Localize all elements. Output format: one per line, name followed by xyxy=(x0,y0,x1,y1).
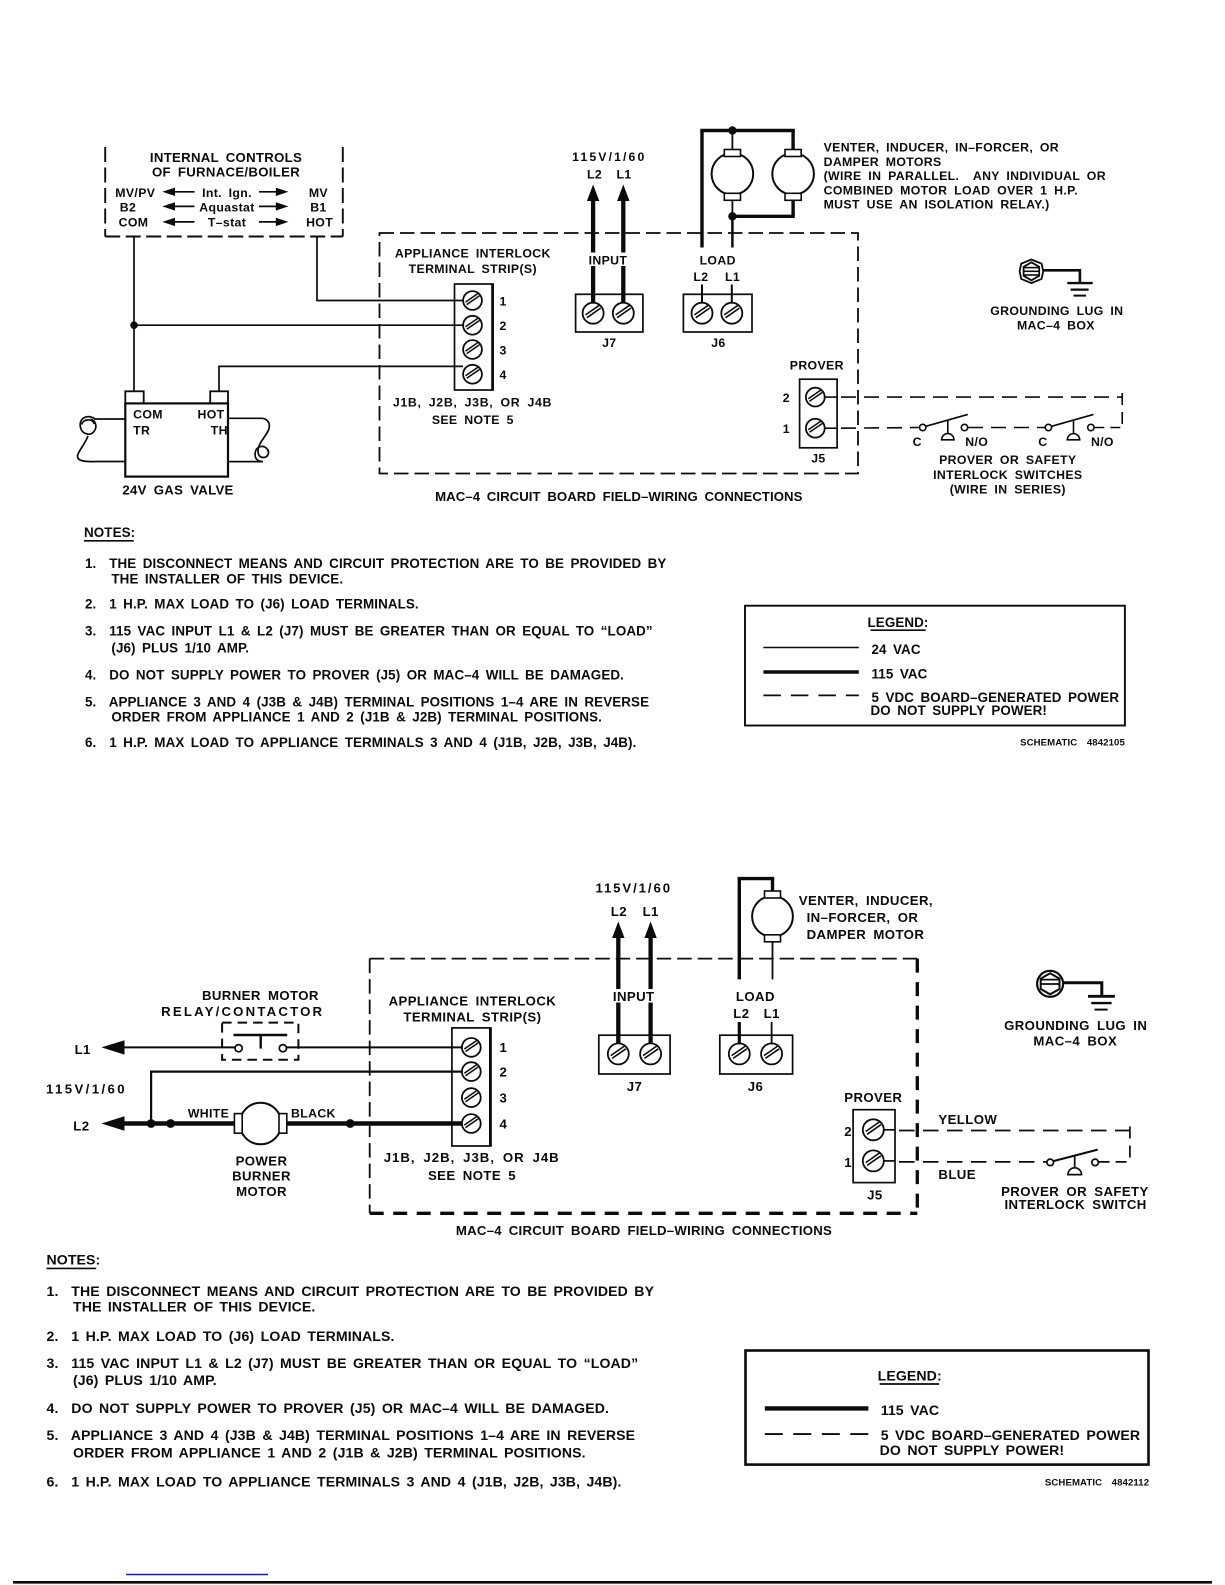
svg-text:VENTER, INDUCER,: VENTER, INDUCER, xyxy=(799,893,933,908)
label: grounding lug in MAC-4 box (diagram 2) xyxy=(1004,1018,1147,1049)
earth ground symbol (diagram 2) xyxy=(1088,996,1115,1009)
svg-text:HOT: HOT xyxy=(306,216,333,230)
svg-text:SEE NOTE 5: SEE NOTE 5 xyxy=(428,1168,516,1183)
svg-text:(J6) PLUS 1/10 AMP.: (J6) PLUS 1/10 AMP. xyxy=(111,641,249,656)
svg-text:INTERLOCK SWITCHES: INTERLOCK SWITCHES xyxy=(933,468,1082,482)
dashed box: MAC-4 circuit board field-wiring connections (diagram 1) xyxy=(380,233,859,474)
wire: J5-1 dashed to switch 1 C (5VDC) xyxy=(824,427,918,430)
LEGEND box (diagram 2) xyxy=(746,1351,1149,1465)
svg-text:OF FURNACE/BOILER: OF FURNACE/BOILER xyxy=(152,164,300,179)
svg-text:MAC–4 CIRCUIT BOARD FIELD–WIRI: MAC–4 CIRCUIT BOARD FIELD–WIRING CONNECT… xyxy=(435,489,802,504)
screw J5-1 (diagram 2) xyxy=(863,1150,884,1171)
svg-text:L1: L1 xyxy=(616,168,631,182)
svg-text:115V/1/60: 115V/1/60 xyxy=(595,881,672,896)
svg-text:C: C xyxy=(913,435,922,449)
connector J7 (diagram 2) xyxy=(599,1035,670,1094)
screw J7-L1 (diagram 2) xyxy=(640,1043,661,1064)
svg-text:2: 2 xyxy=(783,391,790,405)
svg-text:115 VAC: 115 VAC xyxy=(881,1402,939,1418)
svg-text:(WIRE IN SERIES): (WIRE IN SERIES) xyxy=(950,482,1066,496)
svg-text:BURNER: BURNER xyxy=(232,1169,291,1184)
NOTES block (diagram 2) xyxy=(47,1252,655,1490)
svg-text:J1B, J2B, J3B, OR J4B: J1B, J2B, J3B, OR J4B xyxy=(384,1150,560,1165)
svg-text:COM: COM xyxy=(119,216,149,230)
svg-text:DAMPER MOTOR: DAMPER MOTOR xyxy=(807,927,925,942)
svg-text:J7: J7 xyxy=(602,336,616,350)
power burner motor B1 xyxy=(232,1103,291,1199)
screw J7-L2 (diagram 2) xyxy=(608,1043,629,1064)
screw J5-2 xyxy=(806,388,825,407)
grounding lug symbol (diagram 2) xyxy=(1037,971,1063,997)
screw terminal 1 (diagram 2) xyxy=(462,1038,481,1057)
svg-text:2. 1 H.P. MAX LOAD TO (J6) LO: 2. 1 H.P. MAX LOAD TO (J6) LOAD TERMINAL… xyxy=(85,597,419,612)
wire: left drop from bus to LOAD L2 xyxy=(700,131,703,248)
LEGEND box (diagram 1) xyxy=(745,606,1125,726)
svg-text:T–stat: T–stat xyxy=(208,216,246,230)
wire: S1 N/O dashed to S2 C (5VDC) xyxy=(968,427,1045,429)
svg-text:N/O: N/O xyxy=(1091,435,1114,449)
svg-text:LEGEND:: LEGEND: xyxy=(878,1367,942,1383)
svg-text:J5: J5 xyxy=(811,451,825,465)
row MV/PV / Int. Ign. / MV with arrows xyxy=(115,186,328,200)
interlock switch S1 (C / N/O) xyxy=(913,414,989,449)
wire: terminal 2 left and down to L2 xyxy=(151,1072,463,1124)
wire: motor 1 bottom stub xyxy=(731,200,733,216)
earth ground symbol (diagram 1) xyxy=(1067,283,1092,296)
page bottom border line xyxy=(13,1581,1212,1584)
label J1B, J2B, J3B, OR J4B / SEE NOTE 5 (diagram 2) xyxy=(384,1150,560,1183)
interlock switch S2 (C / N/O) xyxy=(1038,414,1114,449)
wire: top bus 115VAC xyxy=(700,129,795,132)
junction node at top bus xyxy=(728,126,736,134)
motor M2 (inducer) xyxy=(772,153,814,195)
wire: L2 stub to J6 xyxy=(701,285,703,304)
screw J6-L2 (diagram 2) xyxy=(729,1043,750,1064)
svg-text:N/O: N/O xyxy=(965,435,988,449)
wire: J5-1 dashed blue to switch (5VDC) xyxy=(884,1161,1047,1162)
wire: HOT down from box then right to terminal 1 xyxy=(317,237,463,301)
svg-text:5. APPLIANCE 3 AND 4 (J3B & J: 5. APPLIANCE 3 AND 4 (J3B & J4B) TERMINA… xyxy=(85,694,649,709)
svg-text:SCHEMATIC 4842112: SCHEMATIC 4842112 xyxy=(1045,1478,1149,1489)
note text: venter/damper motor (diagram 2) xyxy=(799,893,933,942)
svg-text:BURNER MOTOR: BURNER MOTOR xyxy=(202,988,319,1003)
wire: lug to earth ground (diagram 1) xyxy=(1044,270,1080,283)
wire: S2 N/O dashed stub to corner xyxy=(1094,427,1122,429)
svg-text:DO NOT SUPPLY POWER!: DO NOT SUPPLY POWER! xyxy=(880,1442,1065,1458)
svg-text:INPUT: INPUT xyxy=(613,989,655,1004)
svg-text:J6: J6 xyxy=(748,1079,763,1094)
svg-text:1: 1 xyxy=(844,1155,852,1170)
screw J7-L2 xyxy=(583,303,604,324)
svg-text:TH: TH xyxy=(211,423,228,437)
dashed box: INTERNAL CONTROLS OF FURNACE/BOILER xyxy=(105,147,343,237)
svg-text:3. 115 VAC INPUT L1 & L2 (J7): 3. 115 VAC INPUT L1 & L2 (J7) MUST BE GR… xyxy=(85,623,653,638)
svg-text:L1: L1 xyxy=(643,904,659,919)
screw terminal 1 (J1B strip) xyxy=(463,291,482,310)
connector J6 (diagram 2) xyxy=(720,1035,793,1094)
svg-text:MV: MV xyxy=(309,186,329,200)
svg-text:1. THE DISCONNECT MEANS AND C: 1. THE DISCONNECT MEANS AND CIRCUIT PROT… xyxy=(47,1283,655,1299)
screw J6-L1 xyxy=(721,303,742,324)
connector J7 (diagram 1) xyxy=(576,294,643,350)
connector J6 (diagram 1) xyxy=(683,294,752,350)
svg-text:ORDER FROM APPLIANCE 1 AND 2 (: ORDER FROM APPLIANCE 1 AND 2 (J1B & J2B)… xyxy=(111,710,602,725)
row B2 / Aquastat / B1 with arrows xyxy=(120,200,327,214)
wire: junction down to LOAD L1 xyxy=(731,216,734,247)
svg-text:2: 2 xyxy=(500,319,507,333)
grounding lug symbol (diagram 1) xyxy=(1020,260,1044,284)
svg-text:INPUT: INPUT xyxy=(589,254,628,268)
junction node on black lead xyxy=(346,1119,355,1128)
svg-text:J5: J5 xyxy=(867,1188,882,1203)
wire: right drop to motor top xyxy=(771,879,774,891)
24V gas valve xyxy=(122,391,233,497)
NOTES block (diagram 1) xyxy=(84,525,666,750)
svg-text:(WIRE IN PARALLEL. ANY INDIVI: (WIRE IN PARALLEL. ANY INDIVIDUAL OR xyxy=(824,169,1106,183)
wire: COM down from box to junction and on to gas valve xyxy=(133,237,135,392)
svg-text:MAC–4 BOX: MAC–4 BOX xyxy=(1017,319,1095,333)
svg-text:2: 2 xyxy=(500,1064,508,1079)
screw J7-L1 xyxy=(613,303,634,324)
terminal position labels 1-4 xyxy=(500,294,507,382)
svg-text:(J6) PLUS 1/10 AMP.: (J6) PLUS 1/10 AMP. xyxy=(73,1372,217,1388)
svg-text:L2: L2 xyxy=(733,1006,749,1021)
wire: lug to earth ground (diagram 2) xyxy=(1063,983,1102,997)
svg-text:4. DO NOT SUPPLY POWER TO PRO: 4. DO NOT SUPPLY POWER TO PROVER (J5) OR… xyxy=(47,1400,610,1416)
svg-text:1: 1 xyxy=(783,422,790,436)
svg-text:LOAD: LOAD xyxy=(700,254,736,268)
svg-text:5 VDC BOARD–GENERATED POWER: 5 VDC BOARD–GENERATED POWER xyxy=(881,1427,1140,1443)
svg-text:1: 1 xyxy=(500,294,507,308)
svg-text:COM: COM xyxy=(133,408,163,422)
115V/1/60 input labels (diagram 2) xyxy=(595,881,672,919)
svg-text:MAC–4 BOX: MAC–4 BOX xyxy=(1033,1033,1117,1048)
svg-text:PROVER: PROVER xyxy=(844,1090,902,1105)
svg-text:6. 1 H.P. MAX LOAD TO APPLIAN: 6. 1 H.P. MAX LOAD TO APPLIANCE TERMINAL… xyxy=(47,1473,622,1489)
svg-text:L2: L2 xyxy=(73,1118,89,1133)
svg-text:ORDER FROM APPLIANCE 1 AND 2 (: ORDER FROM APPLIANCE 1 AND 2 (J1B & J2B)… xyxy=(73,1444,586,1460)
svg-text:J7: J7 xyxy=(627,1079,642,1094)
wire: L1 stub to J6 (diagram 2) xyxy=(771,1022,773,1045)
venter/inducer motors parallel circuit (diagram 1) xyxy=(700,126,814,247)
appliance interlock terminal strip J1B/J2B/J3B/J4B (diagram 1) xyxy=(395,246,551,390)
svg-text:PROVER: PROVER xyxy=(790,358,844,372)
svg-text:SCHEMATIC 4842105: SCHEMATIC 4842105 xyxy=(1020,738,1125,749)
label: prover or safety interlock switches xyxy=(933,453,1082,496)
svg-text:COMBINED MOTOR LOAD OVER 1 H.P: COMBINED MOTOR LOAD OVER 1 H.P. xyxy=(824,183,1078,197)
svg-text:BLUE: BLUE xyxy=(938,1167,976,1182)
svg-text:YELLOW: YELLOW xyxy=(938,1112,997,1127)
wire: L2 stub to J6 (diagram 2) xyxy=(738,1022,741,1045)
svg-text:3. 115 VAC INPUT L1 & L2 (J7): 3. 115 VAC INPUT L1 & L2 (J7) MUST BE GR… xyxy=(47,1355,639,1371)
wire: junction to terminal 2 of appliance interlock strip xyxy=(134,324,463,326)
svg-text:C: C xyxy=(1038,435,1047,449)
svg-text:J1B, J2B, J3B, OR J4B: J1B, J2B, J3B, OR J4B xyxy=(393,395,552,409)
relay/contactor K1 dashed box with contact xyxy=(222,1023,298,1060)
connector J5 PROVER (diagram 1) xyxy=(783,358,844,465)
svg-text:DAMPER MOTORS: DAMPER MOTORS xyxy=(824,155,942,169)
screw J5-2 (diagram 2) xyxy=(863,1119,884,1140)
terminal position labels 1-4 (diagram 2) xyxy=(500,1040,508,1131)
screw J5-1 xyxy=(806,419,825,438)
svg-text:PROVER OR SAFETY: PROVER OR SAFETY xyxy=(939,453,1076,467)
svg-text:MAC–4 CIRCUIT BOARD FIELD–WIRI: MAC–4 CIRCUIT BOARD FIELD–WIRING CONNECT… xyxy=(456,1223,832,1238)
svg-text:1. THE DISCONNECT MEANS AND C: 1. THE DISCONNECT MEANS AND CIRCUIT PROT… xyxy=(85,556,666,571)
wire: motor to terminal 4 thick (115VAC) xyxy=(287,1121,463,1125)
svg-text:LEGEND:: LEGEND: xyxy=(868,615,929,630)
svg-text:INTERNAL CONTROLS: INTERNAL CONTROLS xyxy=(150,150,302,165)
svg-text:RELAY/CONTACTOR: RELAY/CONTACTOR xyxy=(161,1004,324,1019)
wire: motor 1 top stub xyxy=(731,131,733,150)
svg-text:IN–FORCER, OR: IN–FORCER, OR xyxy=(807,910,919,925)
svg-text:115V/1/60: 115V/1/60 xyxy=(572,150,646,164)
svg-text:Int. Ign.: Int. Ign. xyxy=(202,186,252,200)
svg-text:3: 3 xyxy=(500,1090,508,1105)
svg-text:DO NOT SUPPLY POWER!: DO NOT SUPPLY POWER! xyxy=(871,703,1047,718)
wire: J5-2 dashed to interlock switches (5VDC) xyxy=(824,393,1122,428)
wire: L2 thick to motor (115VAC) xyxy=(120,1121,236,1125)
label J1B, J2B, J3B, OR J4B / SEE NOTE 5 xyxy=(393,395,552,427)
wire: S3 N/O dashed stub to corner xyxy=(1099,1161,1130,1163)
wire: gas valve TH terminal up then right to terminal 4 xyxy=(219,366,463,391)
wire: bottom bus xyxy=(732,215,794,218)
L1 label and arrow (diagram 2) xyxy=(75,1040,125,1057)
row COM / T-stat / HOT with arrows xyxy=(119,216,334,230)
wire: J5-2 dashed yellow (5VDC) xyxy=(884,1127,1130,1162)
svg-text:APPLIANCE INTERLOCK: APPLIANCE INTERLOCK xyxy=(395,246,551,260)
svg-text:3: 3 xyxy=(500,343,507,357)
svg-text:4: 4 xyxy=(500,368,507,382)
svg-text:INTERLOCK SWITCH: INTERLOCK SWITCH xyxy=(1004,1197,1146,1212)
INPUT label (diagram 2) xyxy=(608,989,660,1004)
wire: motor 2 top drop xyxy=(791,131,794,150)
wire: motor bottom to LOAD L1 xyxy=(772,942,774,980)
wire: L1 stub to J6 xyxy=(731,285,733,304)
screw terminal 3 (J1B strip) xyxy=(463,340,482,359)
svg-text:5. APPLIANCE 3 AND 4 (J3B & J: 5. APPLIANCE 3 AND 4 (J3B & J4B) TERMINA… xyxy=(47,1427,636,1443)
interlock switch S3 xyxy=(1047,1150,1099,1175)
svg-text:L1: L1 xyxy=(725,270,740,284)
wire: motor 2 bottom drop xyxy=(791,200,794,216)
svg-text:1: 1 xyxy=(500,1040,508,1055)
junction node L2/relay drop xyxy=(147,1119,156,1128)
wire: L1 arrow to relay terminal xyxy=(120,1046,235,1048)
svg-text:MV/PV: MV/PV xyxy=(115,186,155,200)
screw J6-L1 (diagram 2) xyxy=(761,1043,782,1064)
svg-text:GROUNDING LUG IN: GROUNDING LUG IN xyxy=(1004,1018,1147,1033)
L2 label and arrow (diagram 2) xyxy=(73,1116,124,1133)
svg-text:NOTES:: NOTES: xyxy=(84,525,135,540)
wire: top bus xyxy=(738,877,775,880)
wire: left drop from bus to LOAD L2 xyxy=(738,879,741,980)
svg-text:LOAD: LOAD xyxy=(736,989,775,1004)
svg-text:2: 2 xyxy=(844,1124,852,1139)
input power arrow L2 (J7) xyxy=(587,185,599,304)
dashed box: MAC-4 circuit board field-wiring connections (diagram 2) xyxy=(370,959,918,1238)
motor M1 (venter) xyxy=(712,153,754,195)
svg-text:GROUNDING LUG IN: GROUNDING LUG IN xyxy=(990,304,1123,318)
svg-text:MUST USE AN ISOLATION RELAY.): MUST USE AN ISOLATION RELAY.) xyxy=(824,198,1050,212)
connector J5 PROVER (diagram 2) xyxy=(844,1090,902,1203)
screw terminal 3 (diagram 2) xyxy=(462,1088,481,1107)
svg-text:L2: L2 xyxy=(587,168,602,182)
svg-text:NOTES:: NOTES: xyxy=(47,1252,101,1268)
svg-text:THE INSTALLER OF THIS DEVICE.: THE INSTALLER OF THIS DEVICE. xyxy=(73,1299,315,1315)
input power arrow L2 (diagram 2) xyxy=(612,922,624,1045)
svg-text:115V/1/60: 115V/1/60 xyxy=(46,1082,127,1097)
junction node on COM wire xyxy=(130,321,138,329)
svg-text:BLACK: BLACK xyxy=(291,1106,336,1120)
pipe right of gas valve with break loop xyxy=(228,418,269,461)
svg-text:B2: B2 xyxy=(120,200,136,214)
svg-text:WHITE: WHITE xyxy=(188,1106,229,1120)
svg-text:2. 1 H.P. MAX LOAD TO (J6) LO: 2. 1 H.P. MAX LOAD TO (J6) LOAD TERMINAL… xyxy=(47,1328,395,1344)
screw J6-L2 xyxy=(692,303,713,324)
blue reference underline mark at page bottom xyxy=(126,1574,268,1576)
svg-text:115 VAC: 115 VAC xyxy=(872,667,928,682)
svg-text:Aquastat: Aquastat xyxy=(199,200,254,214)
junction node at bottom bus xyxy=(728,212,736,220)
svg-text:POWER: POWER xyxy=(236,1154,288,1169)
INPUT label (knockout) xyxy=(583,253,635,268)
svg-text:4: 4 xyxy=(500,1116,508,1131)
svg-text:L2: L2 xyxy=(693,270,708,284)
motor M3 (venter/damper) xyxy=(752,896,793,937)
note text: venter/inducer motors (diagram 1) xyxy=(824,141,1106,212)
pipe left of gas valve with break loop xyxy=(77,417,125,462)
junction node L2/motor lead xyxy=(166,1119,175,1128)
svg-text:TERMINAL STRIP(S): TERMINAL STRIP(S) xyxy=(403,1009,541,1024)
screw terminal 2 (J1B strip) xyxy=(463,316,482,335)
input power arrow L1 (diagram 2) xyxy=(644,922,656,1045)
screw terminal 4 (diagram 2) xyxy=(462,1114,481,1133)
svg-text:MOTOR: MOTOR xyxy=(236,1184,287,1199)
label: prover or safety interlock switch xyxy=(1001,1184,1149,1212)
svg-text:SEE NOTE 5: SEE NOTE 5 xyxy=(432,413,514,427)
svg-text:TR: TR xyxy=(133,423,150,437)
svg-text:24V GAS VALVE: 24V GAS VALVE xyxy=(122,483,233,498)
LOAD labels (diagram 1) xyxy=(693,253,742,284)
svg-text:THE INSTALLER OF THIS DEVICE.: THE INSTALLER OF THIS DEVICE. xyxy=(111,571,343,586)
svg-text:VENTER, INDUCER, IN–FORCER, OR: VENTER, INDUCER, IN–FORCER, OR xyxy=(824,141,1059,155)
svg-text:APPLIANCE INTERLOCK: APPLIANCE INTERLOCK xyxy=(389,993,557,1008)
screw terminal 4 (J1B strip) xyxy=(463,365,482,384)
svg-text:TERMINAL STRIP(S): TERMINAL STRIP(S) xyxy=(409,262,537,276)
wire: relay to terminal 1 (diagram 2) xyxy=(287,1046,463,1048)
svg-text:L2: L2 xyxy=(611,904,627,919)
appliance interlock terminal strip (diagram 2) xyxy=(389,993,557,1146)
svg-text:HOT: HOT xyxy=(198,408,225,422)
svg-text:L1: L1 xyxy=(764,1006,780,1021)
svg-text:4. DO NOT SUPPLY POWER TO PRO: 4. DO NOT SUPPLY POWER TO PROVER (J5) OR… xyxy=(85,667,624,682)
LOAD labels (diagram 2) xyxy=(731,989,780,1021)
screw terminal 2 (diagram 2) xyxy=(462,1062,481,1081)
svg-text:B1: B1 xyxy=(310,200,326,214)
svg-text:J6: J6 xyxy=(711,336,725,350)
svg-text:6. 1 H.P. MAX LOAD TO APPLIAN: 6. 1 H.P. MAX LOAD TO APPLIANCE TERMINAL… xyxy=(85,735,636,750)
svg-text:L1: L1 xyxy=(75,1042,91,1057)
label: burner motor relay/contactor xyxy=(161,988,324,1019)
115V/1/60 input labels (diagram 1) xyxy=(572,150,646,182)
input power arrow L1 (J7) xyxy=(617,185,629,304)
svg-text:24 VAC: 24 VAC xyxy=(872,642,921,657)
venter/damper motor circuit (diagram 2) xyxy=(738,879,793,980)
label: grounding lug in MAC-4 box (diagram 1) xyxy=(990,304,1123,333)
